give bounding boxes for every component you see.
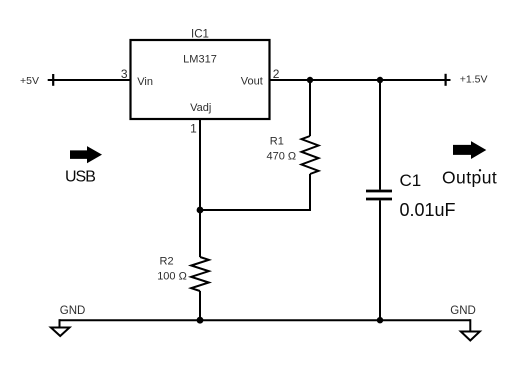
svg-text:IC1: IC1 [191, 28, 209, 40]
wire Vout junction down to R1 top [309, 80, 311, 136]
svg-text:1: 1 [190, 122, 197, 136]
wire Vadj pin 1 down [199, 119, 201, 257]
svg-text:Output: Output [442, 168, 497, 188]
stray dot above Output text [479, 169, 481, 171]
svg-text:+1.5V: +1.5V [460, 74, 488, 86]
ground symbol right triangle [461, 332, 480, 341]
svg-text:R2: R2 [160, 256, 174, 268]
ground symbol right stub [469, 319, 471, 331]
svg-text:470 Ω: 470 Ω [267, 150, 297, 162]
ground symbol left triangle [51, 328, 70, 337]
svg-text:R1: R1 [270, 136, 284, 148]
svg-text:Vout: Vout [241, 76, 263, 88]
node junction dot at Vout/R1 [307, 77, 313, 83]
svg-text:GND: GND [450, 305, 476, 317]
svg-text:0.01uF: 0.01uF [400, 200, 456, 220]
wire R1 bottom down and left to Vadj node [199, 174, 310, 210]
Output arrow icon [453, 141, 486, 159]
resistor R1 zigzag [302, 136, 319, 174]
wire Vout pin 2 to +1.5V terminal [270, 79, 451, 81]
svg-text:GND: GND [60, 305, 86, 317]
node junction dot at C1/ground [377, 317, 383, 323]
svg-text:Vadj: Vadj [190, 102, 211, 114]
svg-text:USB: USB [65, 168, 95, 185]
capacitor C1 bottom plate [366, 198, 392, 201]
terminal +1.5V [445, 74, 447, 86]
wire C1 bottom plate to ground bus [379, 200, 381, 320]
USB arrow icon [70, 146, 102, 163]
op-amp IC1 body (LM317 regulator box) [131, 40, 270, 119]
svg-text:LM317: LM317 [183, 54, 217, 66]
ground symbol left stub [59, 319, 61, 327]
svg-text:C1: C1 [400, 171, 422, 190]
node junction dot at R2/ground [197, 317, 204, 324]
wire junction to capacitor C1 top plate [379, 80, 381, 190]
svg-text:Vin: Vin [137, 76, 153, 88]
svg-text:3: 3 [121, 67, 128, 81]
node junction dot at Vadj/R1 [197, 207, 204, 214]
capacitor C1 top plate [366, 190, 392, 193]
terminal +5V [52, 74, 54, 86]
node junction dot at Vout/C1 [377, 77, 383, 83]
ground bus wire [60, 319, 471, 321]
wire input +5V to Vin pin 3 [48, 79, 131, 81]
wire R2 bottom to ground bus [199, 291, 201, 320]
svg-text:+5V: +5V [20, 75, 39, 87]
resistor R2 zigzag [191, 257, 209, 291]
svg-text:2: 2 [273, 67, 280, 81]
svg-text:100 Ω: 100 Ω [157, 270, 187, 282]
